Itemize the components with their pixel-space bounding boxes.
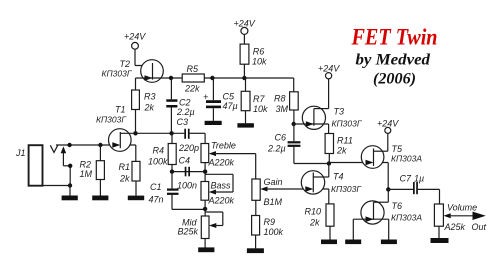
- capacitor C7: [388, 174, 439, 205]
- wire T3out to T5 gate: [329, 162, 388, 164]
- svg-text:T4: T4: [333, 172, 344, 182]
- svg-text:R1: R1: [119, 162, 131, 172]
- svg-text:2.2µ: 2.2µ: [176, 107, 195, 117]
- capacitor C5: [203, 78, 238, 121]
- svg-text:КП303Г: КП303Г: [331, 184, 362, 194]
- resistor R9: [252, 200, 284, 248]
- svg-text:10k: 10k: [252, 57, 267, 67]
- svg-text:T5: T5: [392, 144, 403, 154]
- ground (T6 source): [381, 240, 397, 245]
- svg-text:C5: C5: [223, 92, 235, 102]
- potentiometer Treble: [201, 141, 256, 180]
- wire C1 to mid node: [172, 208, 205, 210]
- potentiometer Mid: [178, 200, 223, 247]
- resistor R2: [80, 145, 105, 196]
- jack tip contact (V): [50, 145, 58, 152]
- ground (R10): [321, 240, 337, 245]
- resistor R4: [148, 133, 176, 171]
- svg-text:2k: 2k: [119, 174, 130, 184]
- svg-text:FET Twin: FET Twin: [351, 25, 438, 50]
- svg-text:2k: 2k: [309, 218, 320, 228]
- power +24V (T2): [124, 32, 153, 66]
- svg-text:КП303Г: КП303Г: [332, 119, 363, 129]
- node sleeve dot: [68, 164, 72, 168]
- svg-text:R6: R6: [253, 47, 265, 57]
- svg-text:R2: R2: [80, 160, 92, 170]
- svg-text:C6: C6: [275, 133, 287, 143]
- svg-text:Out: Out: [472, 222, 487, 232]
- svg-text:+24V: +24V: [124, 32, 146, 42]
- node C2/R4 dot: [169, 131, 173, 135]
- capacitor C1: [149, 172, 179, 210]
- ground (Volume): [431, 238, 449, 243]
- node treble/bass dot: [203, 169, 207, 173]
- svg-text:10k: 10k: [253, 104, 268, 114]
- node input dot 1: [67, 143, 71, 147]
- svg-text:1M: 1M: [80, 169, 93, 179]
- svg-text:100n: 100n: [177, 181, 197, 191]
- svg-text:КП303А: КП303А: [391, 213, 422, 223]
- resistor R10: [305, 204, 335, 240]
- capacitor C3: [177, 117, 206, 153]
- power +24V (T3): [318, 64, 340, 109]
- potentiometer Gain: [252, 177, 329, 207]
- resistor R6: [240, 44, 267, 78]
- svg-text:A220k: A220k: [208, 158, 235, 168]
- svg-text:220p: 220p: [178, 143, 199, 153]
- svg-text:R4: R4: [153, 146, 165, 156]
- output arrow Out: [473, 212, 486, 220]
- svg-text:2k: 2k: [336, 146, 347, 156]
- ground (R9): [247, 248, 264, 253]
- svg-text:1µ: 1µ: [414, 174, 424, 184]
- svg-text:Treble: Treble: [211, 141, 236, 151]
- svg-text:R11: R11: [337, 136, 353, 146]
- svg-text:C1: C1: [150, 182, 162, 192]
- node R4/C1 dot: [170, 169, 174, 173]
- plug arrow: [61, 146, 71, 165]
- svg-text:47µ: 47µ: [223, 101, 238, 111]
- svg-text:A220k: A220k: [208, 196, 235, 206]
- svg-text:T1: T1: [115, 105, 126, 115]
- capacitor C2: [166, 78, 194, 133]
- svg-text:КП303А: КП303А: [391, 154, 422, 164]
- wire C4 row y=171.6: [172, 171, 205, 173]
- ground (T6 gate): [345, 240, 361, 245]
- svg-text:C2: C2: [179, 98, 191, 108]
- svg-text:100k: 100k: [264, 227, 284, 237]
- capacitor C4: [177, 156, 197, 191]
- potentiometer Bass: [201, 174, 235, 205]
- ground (R7): [237, 123, 254, 127]
- svg-text:R3: R3: [144, 92, 156, 102]
- wire jack sleeve: [43, 185, 71, 187]
- svg-text:2.2µ: 2.2µ: [267, 144, 286, 154]
- svg-text:47n: 47n: [149, 195, 164, 205]
- resistor R7: [241, 78, 268, 123]
- svg-text:T3: T3: [334, 107, 345, 117]
- power +24V (R6): [234, 19, 256, 45]
- svg-text:C4: C4: [179, 156, 191, 166]
- resistor R8: [274, 92, 298, 124]
- wire input node: [56, 144, 136, 146]
- svg-text:КП303Г: КП303Г: [96, 115, 127, 125]
- svg-text:C7: C7: [400, 174, 412, 184]
- svg-text:100k: 100k: [148, 157, 168, 167]
- wire plug to sleeve: [69, 166, 71, 186]
- resistor R11: [325, 134, 353, 164]
- svg-text:J1: J1: [15, 148, 26, 158]
- svg-text:T6: T6: [392, 201, 403, 211]
- svg-text:Gain: Gain: [264, 177, 283, 187]
- svg-text:R5: R5: [187, 64, 199, 74]
- resistor R5: [182, 64, 204, 94]
- svg-text:by Medved: by Medved: [356, 52, 432, 69]
- svg-text:R9: R9: [264, 217, 276, 227]
- transistor T3: [294, 106, 363, 133]
- resistor R1: [119, 161, 141, 195]
- transistor T6: [353, 189, 422, 239]
- transistor T5: [361, 144, 422, 189]
- node bass bottom dot: [203, 207, 207, 211]
- svg-text:22k: 22k: [184, 84, 200, 94]
- ground (C5): [205, 121, 222, 125]
- ground (input): [62, 196, 78, 201]
- node R3/T1 drain dot: [133, 131, 137, 135]
- ground (R1): [128, 196, 144, 201]
- svg-text:3M: 3M: [276, 104, 289, 114]
- wire T1 drain bus y=133.3: [120, 132, 184, 134]
- wire top bus y=78: [136, 77, 183, 79]
- transistor T1: [96, 105, 136, 162]
- svg-text:A25k: A25k: [444, 222, 466, 232]
- svg-text:Bass: Bass: [211, 181, 232, 191]
- node bus dots: [169, 76, 173, 80]
- ground (Mid): [198, 247, 214, 252]
- svg-text:КП303Г: КП303Г: [102, 69, 133, 79]
- svg-text:C3: C3: [177, 117, 189, 127]
- svg-text:R10: R10: [305, 207, 322, 217]
- svg-text:Volume: Volume: [447, 203, 477, 213]
- svg-text:+24V: +24V: [318, 64, 340, 74]
- svg-text:T2: T2: [120, 59, 131, 69]
- wire treble bottom to bass top: [204, 163, 206, 182]
- node T4 drain dot: [327, 161, 331, 165]
- node input dot 2: [98, 143, 102, 147]
- svg-text:B1M: B1M: [264, 197, 283, 207]
- transistor T2: [102, 59, 164, 82]
- node R8/T3 gate dot: [292, 122, 296, 126]
- potentiometer Volume: [434, 203, 477, 239]
- power +24V (T5): [377, 119, 399, 152]
- ground (R2): [92, 196, 108, 201]
- capacitor C6: [267, 124, 329, 164]
- node T5 source dot: [386, 187, 390, 191]
- svg-text:R7: R7: [253, 94, 265, 104]
- transistor T4: [301, 164, 362, 204]
- svg-text:2k: 2k: [144, 103, 155, 113]
- svg-text:B25k: B25k: [178, 227, 199, 237]
- jack J1: [15, 145, 43, 186]
- resistor R3: [132, 78, 156, 133]
- svg-text:R8: R8: [274, 94, 286, 104]
- svg-text:(2006): (2006): [373, 71, 416, 88]
